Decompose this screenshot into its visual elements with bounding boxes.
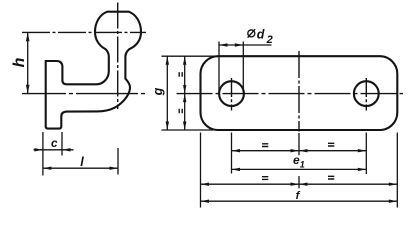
equal symbol row3 right <box>328 176 334 179</box>
equal symbol row1 right <box>328 143 334 146</box>
hole right <box>354 81 379 106</box>
c arrows <box>34 148 43 151</box>
dimension l right extension <box>117 148 119 175</box>
equal symbol lower (rotated) <box>179 109 182 114</box>
dimension c line <box>34 149 74 151</box>
centerline vertical hole left <box>231 78 233 111</box>
svg-text:l: l <box>80 155 84 169</box>
g extension lines <box>162 56 220 130</box>
equal symbol upper (rotated) <box>179 72 182 77</box>
row2 e1 arrows <box>232 168 241 171</box>
svg-text:d: d <box>257 28 265 42</box>
h arrows <box>26 32 30 41</box>
d2 arrows <box>219 43 228 46</box>
equal symbol row3 left <box>262 177 268 180</box>
hole left <box>219 81 244 106</box>
centerline vertical plate middle <box>298 51 300 132</box>
row4 f dim line <box>201 200 398 202</box>
svg-text:1: 1 <box>300 159 305 169</box>
g arrows <box>166 56 169 64</box>
svg-text:g: g <box>151 87 165 96</box>
plate outline (front view) <box>201 56 398 130</box>
dimension d2 line <box>219 44 272 46</box>
diameter symbol <box>248 30 255 37</box>
equal dim arrows <box>183 56 186 64</box>
dimension g line <box>166 56 168 130</box>
d2 extension lines <box>219 42 243 94</box>
svg-text:h: h <box>11 57 28 67</box>
dimension h line <box>27 32 29 93</box>
equal symbol row1 left <box>262 144 268 147</box>
bottom extension lines <box>201 133 398 208</box>
hook body outline (left side view) <box>46 12 141 129</box>
row3 arrows <box>201 183 210 186</box>
centerline horizontal through holes front view <box>177 93 404 95</box>
row1 equal halves dim line <box>232 150 367 152</box>
svg-text:f: f <box>296 190 301 202</box>
row1 arrows <box>232 149 241 152</box>
centerline horizontal ball center <box>22 31 146 33</box>
svg-text:2: 2 <box>266 34 273 46</box>
row3 equal halves dim line <box>201 183 398 185</box>
l arrows <box>43 167 52 170</box>
centerline horizontal hole axis left view <box>22 93 147 95</box>
svg-text:c: c <box>51 137 58 150</box>
dimension l line <box>43 167 118 169</box>
dimension c extension lines <box>43 132 62 176</box>
row4 f arrows <box>201 200 210 203</box>
centerline vertical hole right <box>365 78 367 111</box>
equal-spacing dim line (vertical) <box>184 56 186 130</box>
centerline vertical through ball <box>117 3 119 110</box>
plate middle extension below <box>298 133 300 188</box>
row2 e1 dim line <box>232 168 367 170</box>
